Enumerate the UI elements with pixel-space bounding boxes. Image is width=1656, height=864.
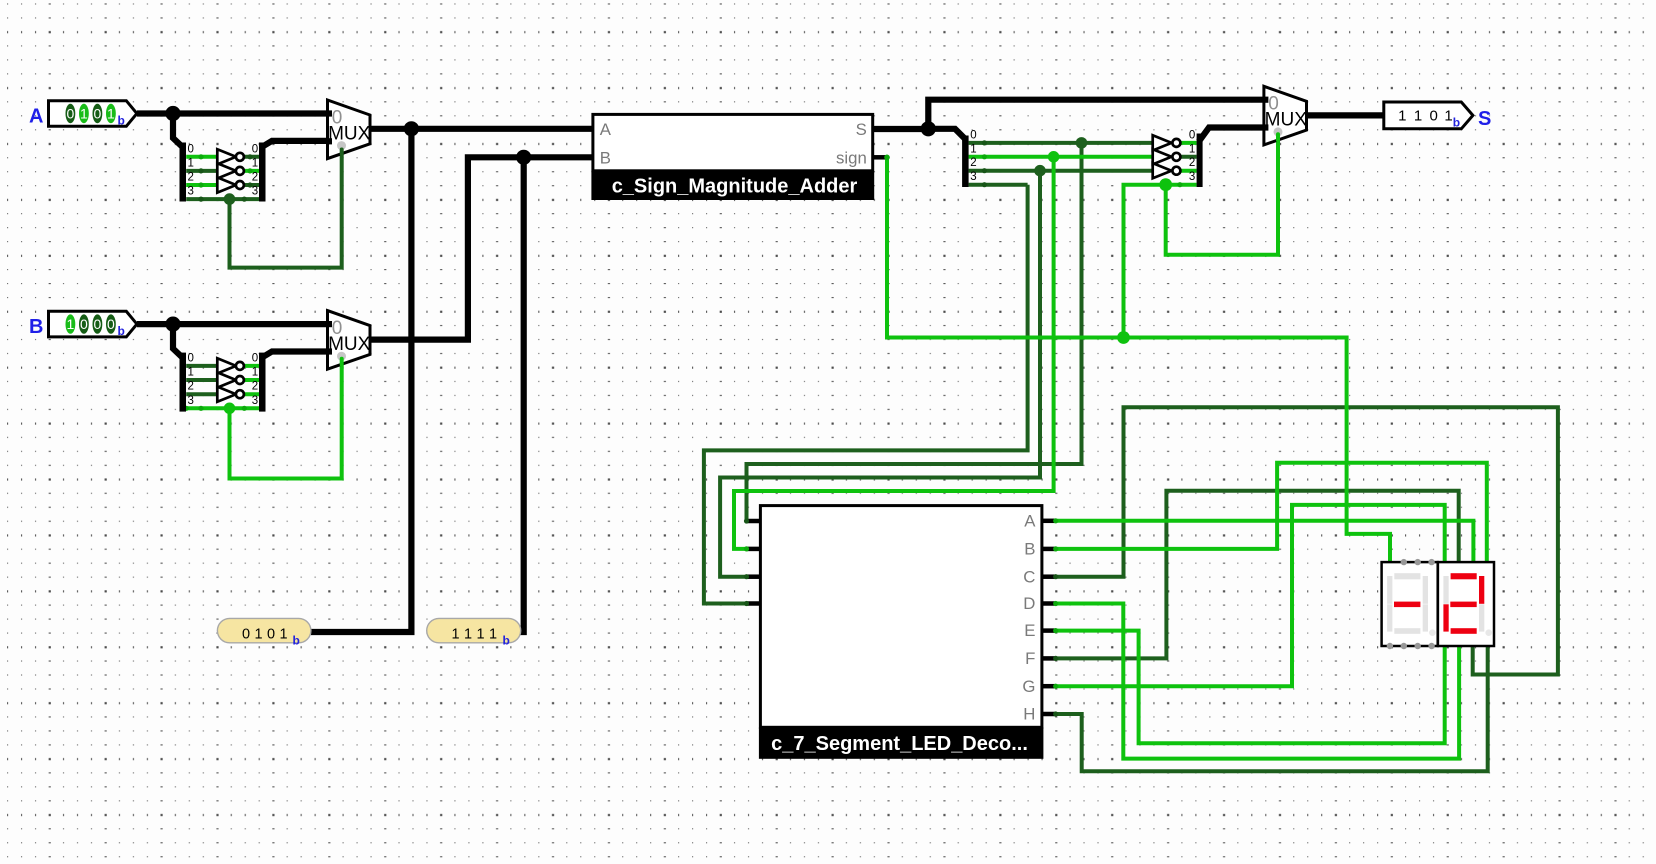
svg-text:c_7_Segment_LED_Deco...: c_7_Segment_LED_Deco... [771, 733, 1028, 755]
svg-text:0: 0 [267, 626, 275, 642]
svg-text:B: B [29, 316, 43, 338]
svg-text:1: 1 [279, 626, 287, 642]
svg-text:0: 0 [252, 352, 258, 364]
svg-text:1: 1 [188, 157, 194, 169]
svg-text:0: 0 [1189, 129, 1195, 141]
svg-text:E: E [1024, 621, 1035, 640]
svg-text:A: A [600, 120, 612, 139]
svg-text:1: 1 [1189, 143, 1195, 155]
svg-text:b: b [1453, 116, 1460, 130]
svg-text:MUX: MUX [328, 123, 371, 144]
svg-text:2: 2 [252, 381, 258, 393]
svg-text:sign: sign [836, 148, 867, 167]
svg-text:3: 3 [188, 395, 194, 407]
svg-text:1: 1 [1444, 108, 1452, 125]
svg-text:MUX: MUX [328, 334, 371, 355]
svg-text:0: 0 [242, 626, 250, 642]
svg-text:0: 0 [1430, 108, 1438, 125]
svg-text:0: 0 [970, 129, 976, 141]
svg-text:2: 2 [970, 157, 976, 169]
svg-text:b: b [118, 324, 125, 338]
svg-text:3: 3 [252, 186, 258, 198]
svg-text:3: 3 [1189, 171, 1195, 183]
svg-text:0: 0 [188, 352, 194, 364]
svg-text:0: 0 [94, 316, 102, 332]
svg-text:S: S [856, 120, 867, 139]
svg-text:0: 0 [80, 316, 88, 332]
svg-text:2: 2 [188, 381, 194, 393]
svg-text:1: 1 [80, 105, 88, 121]
svg-text:2: 2 [1189, 157, 1195, 169]
svg-text:b: b [503, 634, 510, 648]
svg-text:MUX: MUX [1265, 110, 1308, 131]
svg-text:1: 1 [252, 157, 258, 169]
svg-text:A: A [1024, 511, 1036, 530]
svg-text:0: 0 [67, 105, 75, 121]
svg-text:3: 3 [252, 395, 258, 407]
svg-text:0: 0 [188, 143, 194, 155]
svg-text:3: 3 [188, 186, 194, 198]
svg-text:2: 2 [252, 172, 258, 184]
svg-text:c_Sign_Magnitude_Adder: c_Sign_Magnitude_Adder [612, 176, 858, 198]
svg-text:1: 1 [107, 105, 115, 121]
svg-text:1: 1 [254, 626, 262, 642]
svg-text:F: F [1025, 649, 1035, 668]
svg-text:A: A [29, 106, 43, 128]
svg-text:0: 0 [107, 316, 115, 332]
svg-text:1: 1 [451, 626, 459, 642]
svg-text:1: 1 [67, 316, 75, 332]
svg-text:1: 1 [1414, 108, 1422, 125]
svg-text:1: 1 [1398, 108, 1406, 125]
svg-text:1: 1 [464, 626, 472, 642]
svg-text:1: 1 [476, 626, 484, 642]
svg-text:B: B [1024, 540, 1035, 559]
svg-text:b: b [118, 114, 125, 128]
svg-text:3: 3 [970, 171, 976, 183]
svg-text:S: S [1478, 108, 1491, 130]
svg-text:1: 1 [489, 626, 497, 642]
svg-text:D: D [1023, 594, 1035, 613]
svg-text:1: 1 [188, 367, 194, 379]
svg-text:C: C [1023, 567, 1035, 586]
svg-text:1: 1 [252, 367, 258, 379]
svg-text:B: B [600, 148, 611, 167]
svg-text:H: H [1023, 705, 1035, 724]
svg-text:2: 2 [188, 172, 194, 184]
svg-text:b: b [293, 634, 300, 648]
svg-text:G: G [1022, 677, 1035, 696]
svg-text:0: 0 [252, 143, 258, 155]
svg-text:1: 1 [970, 143, 976, 155]
svg-text:0: 0 [94, 105, 102, 121]
